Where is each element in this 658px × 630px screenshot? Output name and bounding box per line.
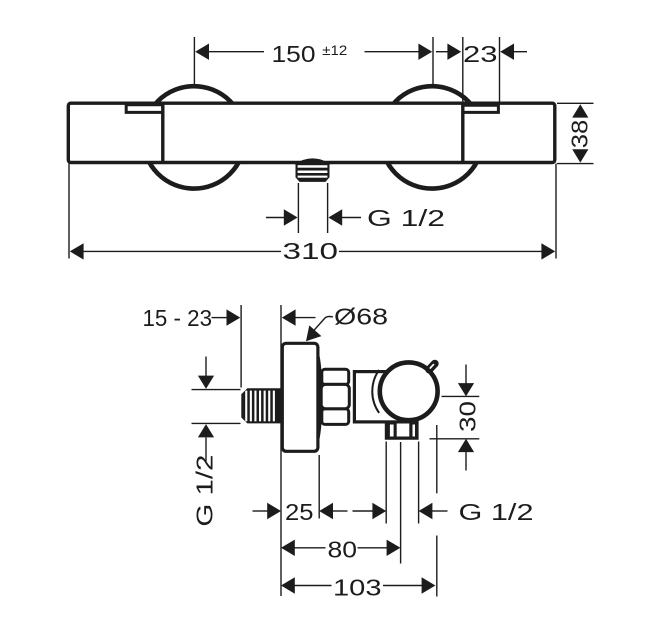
extension line 310 right — [555, 164, 557, 259]
outlet dome — [295, 158, 331, 164]
extension line 310 left — [68, 164, 70, 259]
valve body — [354, 372, 407, 422]
extension line escutcheon right face — [318, 455, 320, 519]
extension line nipple tip — [240, 305, 242, 388]
svg-text:103: 103 — [333, 574, 382, 600]
extension line body right 103 — [436, 425, 438, 493]
extension line outlet right — [418, 442, 420, 524]
clip notch right — [463, 104, 498, 112]
knob tab — [429, 364, 435, 370]
extension line escutcheon left face (long) — [280, 305, 282, 596]
connection nut top collar — [322, 369, 349, 384]
extension line outlet left — [385, 442, 387, 524]
dimension 38 extension lines — [557, 102, 594, 104]
svg-text:±12: ±12 — [322, 42, 347, 58]
outlet threaded block G1/2 — [296, 164, 330, 182]
svg-text:30: 30 — [455, 401, 481, 432]
mixer bar body (front view) — [68, 103, 555, 162]
outlet nut under knob — [385, 421, 419, 440]
extension line left circle center — [193, 37, 195, 85]
divider line right — [461, 103, 464, 162]
nipple G1/2 extension lines — [192, 389, 241, 391]
dimension 38 arrows and text — [572, 104, 588, 117]
connection nut hex middle — [321, 384, 349, 408]
svg-text:G 1/2: G 1/2 — [192, 455, 218, 527]
svg-text:23: 23 — [463, 41, 498, 67]
dimension 15-23 arrows — [212, 317, 228, 319]
divider line left — [161, 103, 164, 162]
dimension G 1/2 outlet bottom — [353, 510, 374, 512]
svg-text:Ø68: Ø68 — [334, 304, 388, 330]
leader line for Ø68 — [308, 317, 333, 338]
escutcheon circle left (front view) — [143, 86, 245, 188]
svg-text:G 1/2: G 1/2 — [367, 205, 445, 231]
svg-text:80: 80 — [328, 537, 358, 563]
dimension 310 — [70, 243, 84, 259]
escutcheon circle right (front view) — [381, 86, 483, 188]
clip notch left — [126, 104, 161, 112]
dimension 30 arrows — [465, 365, 467, 385]
dimension 103 — [281, 577, 295, 593]
svg-text:150: 150 — [272, 41, 316, 67]
dimension 80 — [281, 540, 295, 556]
extension line notch right end — [499, 37, 501, 102]
extension lines outlet G1/2 — [297, 183, 299, 233]
dimension G 1/2 outlet — [266, 217, 284, 219]
nipple G1/2 dimension arrows — [205, 357, 207, 377]
dimension 25 — [253, 510, 269, 512]
thermostat knob circle — [380, 362, 438, 420]
dimension 23 — [436, 51, 449, 53]
svg-text:15 - 23: 15 - 23 — [143, 305, 213, 331]
escutcheon plate (side view) — [282, 343, 318, 451]
connection nut bottom collar — [322, 409, 349, 425]
svg-text:310: 310 — [283, 238, 339, 264]
dimension 30 extension lines — [442, 395, 480, 397]
wall nipple threaded G1/2 — [241, 388, 283, 423]
svg-text:25: 25 — [285, 499, 314, 525]
svg-text:38: 38 — [566, 120, 592, 149]
extension line outlet center — [400, 442, 402, 564]
escutcheon plate (side view) bulge — [315, 346, 321, 450]
extension line notch right start — [462, 37, 464, 102]
extension line right circle center — [432, 37, 434, 85]
dimension 150 +-12 — [195, 44, 209, 60]
svg-text:G 1/2: G 1/2 — [459, 499, 534, 525]
knob rear flange arc — [372, 370, 379, 413]
